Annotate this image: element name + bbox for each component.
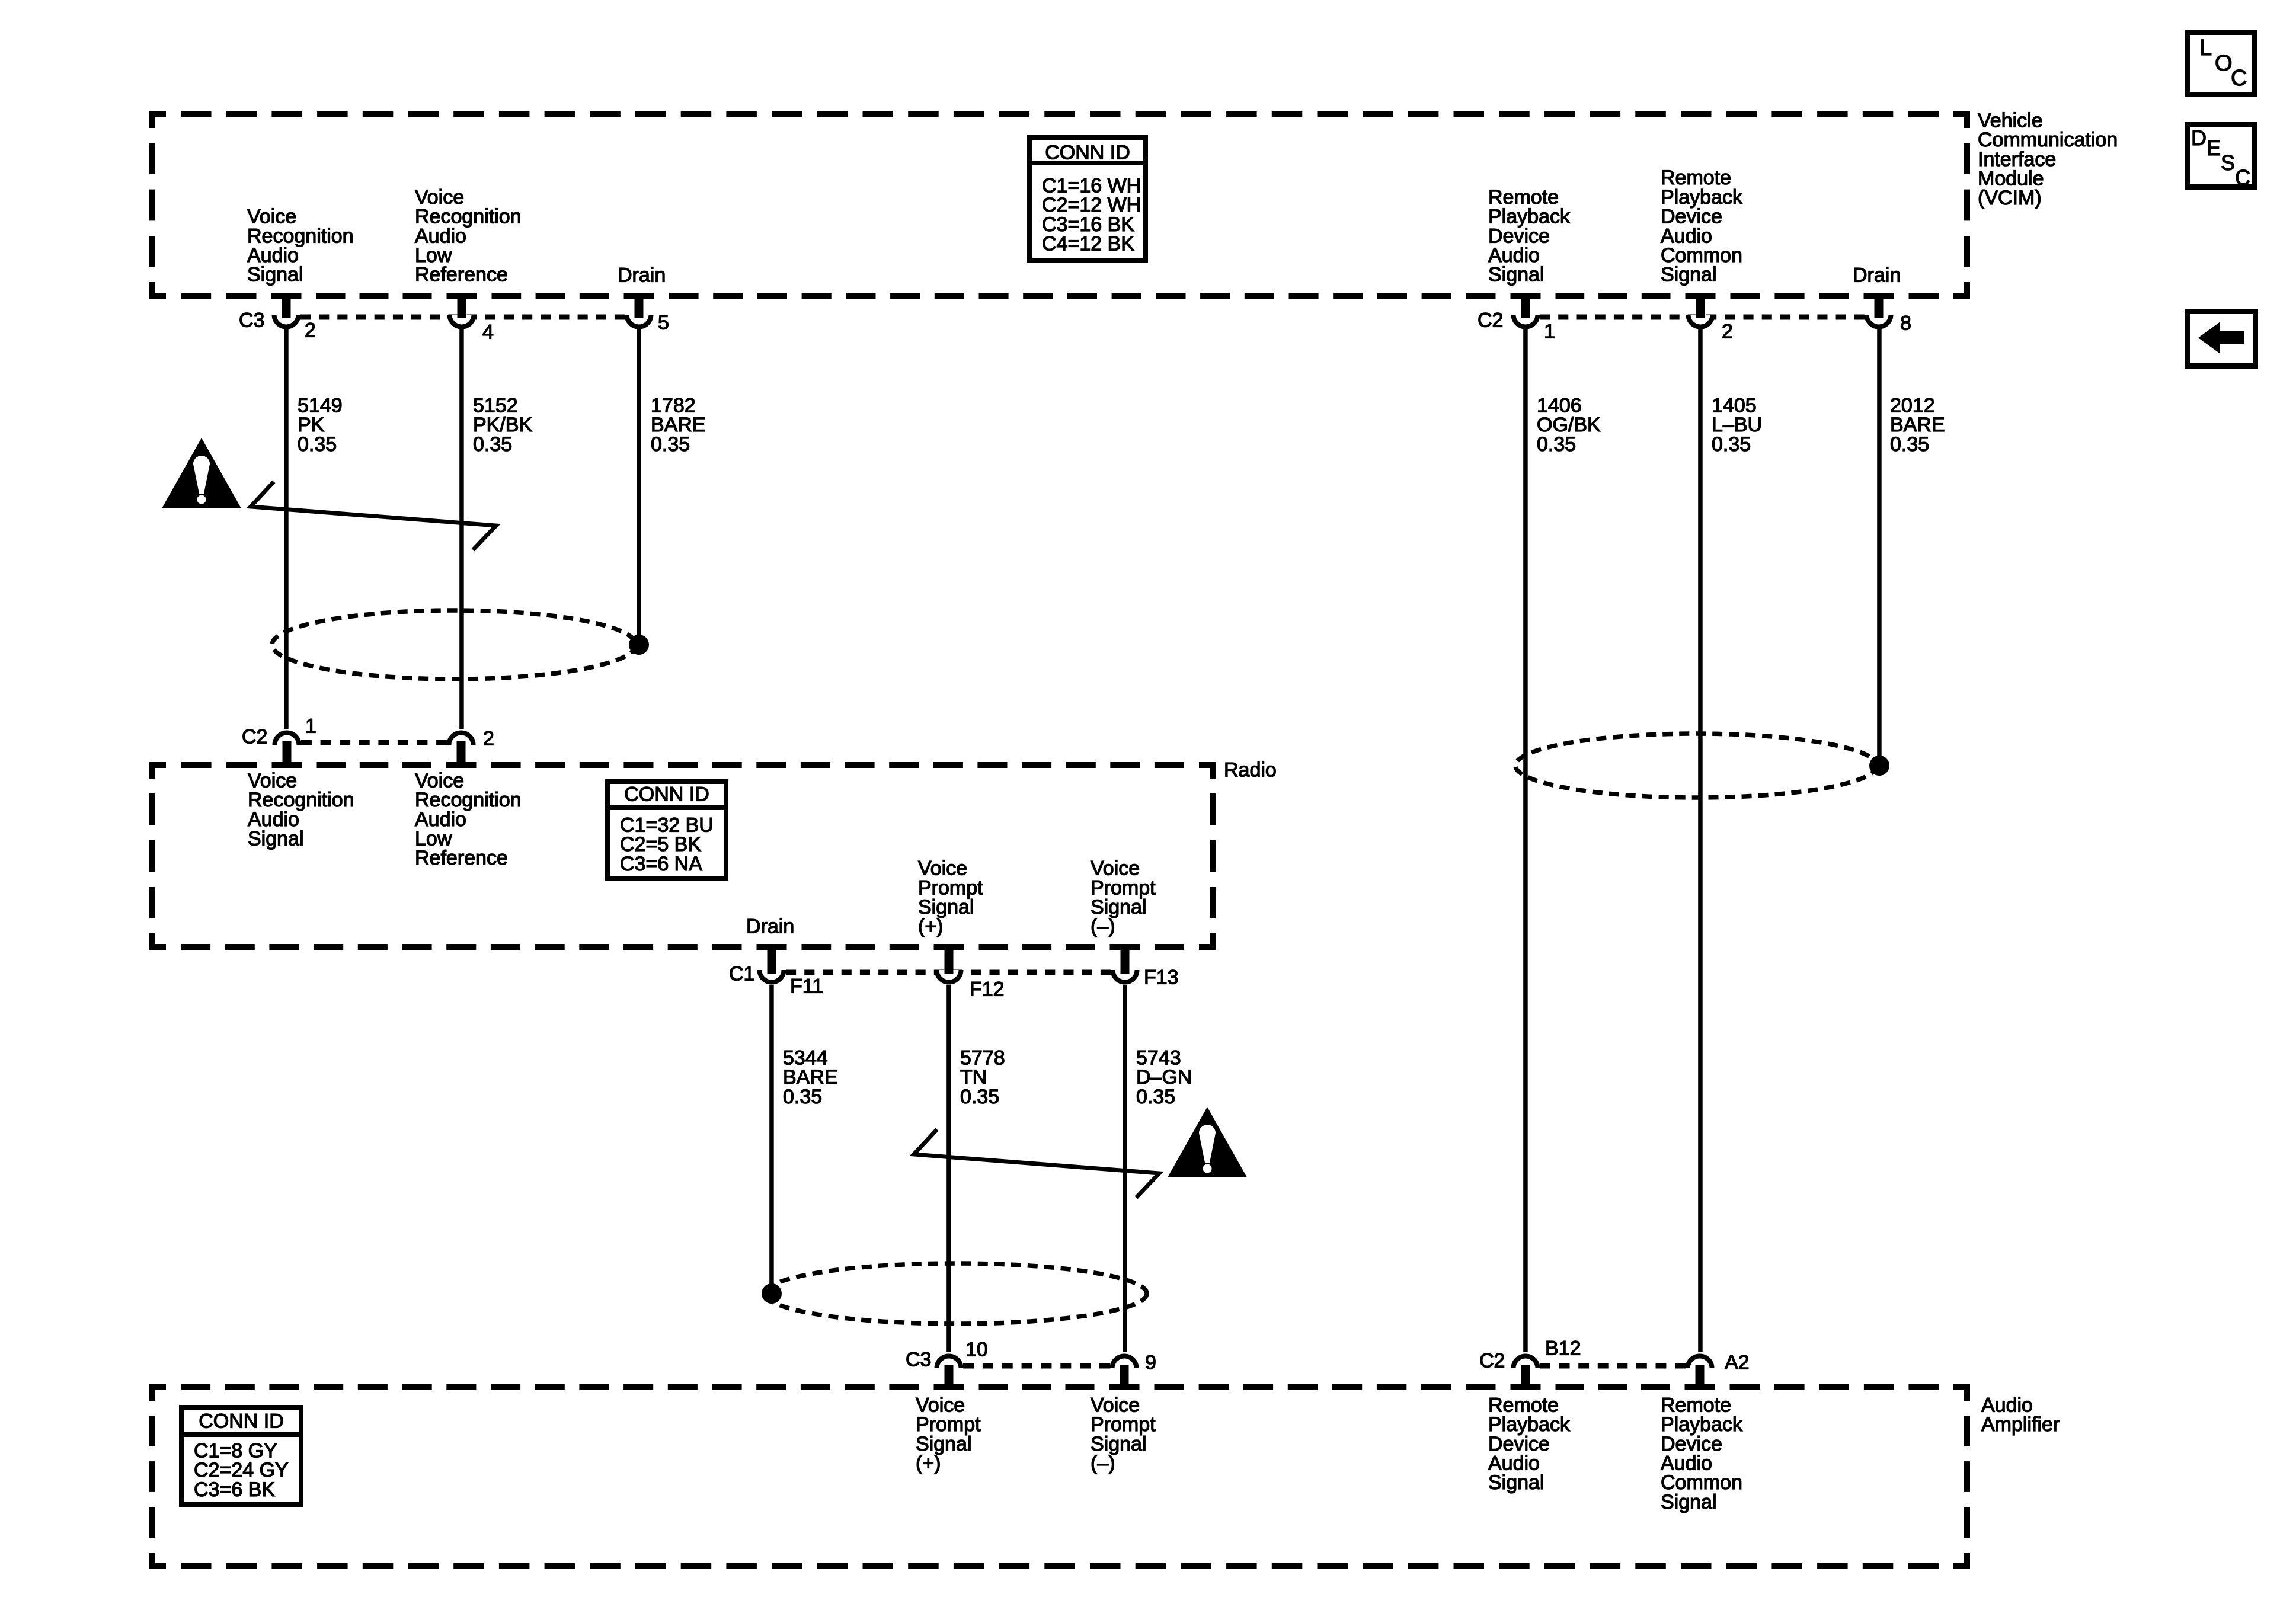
svg-text:2: 2 <box>483 727 494 750</box>
svg-text:D: D <box>2191 126 2207 150</box>
svg-text:S: S <box>2221 151 2235 175</box>
svg-text:Reference: Reference <box>415 264 508 286</box>
svg-text:C2: C2 <box>242 725 267 748</box>
svg-text:2: 2 <box>305 319 316 341</box>
svg-text:(+): (+) <box>916 1452 941 1475</box>
svg-text:10: 10 <box>965 1338 988 1361</box>
svg-text:Drain: Drain <box>618 264 666 286</box>
svg-text:2: 2 <box>1722 320 1733 343</box>
svg-text:C3=6 NA: C3=6 NA <box>620 853 702 875</box>
svg-text:C2: C2 <box>1479 1349 1505 1372</box>
svg-text:1: 1 <box>1544 320 1555 343</box>
svg-text:(+): (+) <box>918 916 944 938</box>
svg-text:Drain: Drain <box>1853 264 1901 286</box>
svg-text:C: C <box>2235 165 2250 190</box>
svg-text:Signal: Signal <box>248 828 304 850</box>
svg-text:0.35: 0.35 <box>651 433 690 456</box>
svg-text:0.35: 0.35 <box>960 1086 999 1108</box>
svg-text:F13: F13 <box>1144 966 1179 988</box>
svg-text:Signal: Signal <box>1488 264 1544 286</box>
svg-text:0.35: 0.35 <box>473 433 512 456</box>
svg-text:L: L <box>2199 36 2212 60</box>
svg-text:Reference: Reference <box>415 847 508 869</box>
svg-text:CONN ID: CONN ID <box>624 783 709 805</box>
svg-text:(–): (–) <box>1091 1452 1115 1475</box>
svg-text:Radio: Radio <box>1224 758 1277 781</box>
svg-text:0.35: 0.35 <box>783 1086 822 1108</box>
svg-text:Signal: Signal <box>1661 1491 1717 1513</box>
svg-text:F11: F11 <box>790 975 823 997</box>
svg-text:5: 5 <box>658 311 669 334</box>
svg-text:4: 4 <box>482 321 494 343</box>
svg-text:Drain: Drain <box>746 915 794 937</box>
svg-text:0.35: 0.35 <box>1136 1086 1175 1108</box>
svg-text:CONN ID: CONN ID <box>1045 141 1130 164</box>
svg-text:Signal: Signal <box>247 264 303 286</box>
svg-text:B12: B12 <box>1545 1337 1581 1359</box>
svg-text:CONN ID: CONN ID <box>199 1410 284 1432</box>
svg-text:0.35: 0.35 <box>298 433 337 456</box>
svg-text:0.35: 0.35 <box>1890 433 1929 456</box>
svg-text:(–): (–) <box>1091 916 1115 938</box>
svg-text:1: 1 <box>305 715 316 737</box>
svg-text:C4=12 BK: C4=12 BK <box>1042 233 1134 255</box>
svg-text:0.35: 0.35 <box>1537 433 1576 456</box>
svg-text:A2: A2 <box>1725 1351 1750 1374</box>
svg-text:C: C <box>2231 66 2247 91</box>
svg-text:Signal: Signal <box>1488 1471 1544 1494</box>
svg-text:C1: C1 <box>729 962 754 985</box>
svg-text:O: O <box>2215 51 2233 76</box>
svg-text:C3: C3 <box>906 1348 931 1371</box>
svg-text:E: E <box>2207 136 2221 160</box>
svg-text:Signal: Signal <box>1661 264 1717 286</box>
svg-text:0.35: 0.35 <box>1712 433 1751 456</box>
svg-text:Amplifier: Amplifier <box>1981 1413 2060 1436</box>
svg-text:9: 9 <box>1145 1351 1156 1374</box>
svg-text:8: 8 <box>1900 312 1911 334</box>
svg-text:(VCIM): (VCIM) <box>1978 187 2042 209</box>
svg-text:C3: C3 <box>239 309 264 331</box>
svg-text:C2: C2 <box>1478 309 1503 331</box>
svg-text:C3=6 BK: C3=6 BK <box>194 1478 275 1501</box>
svg-text:F12: F12 <box>970 978 1005 1000</box>
